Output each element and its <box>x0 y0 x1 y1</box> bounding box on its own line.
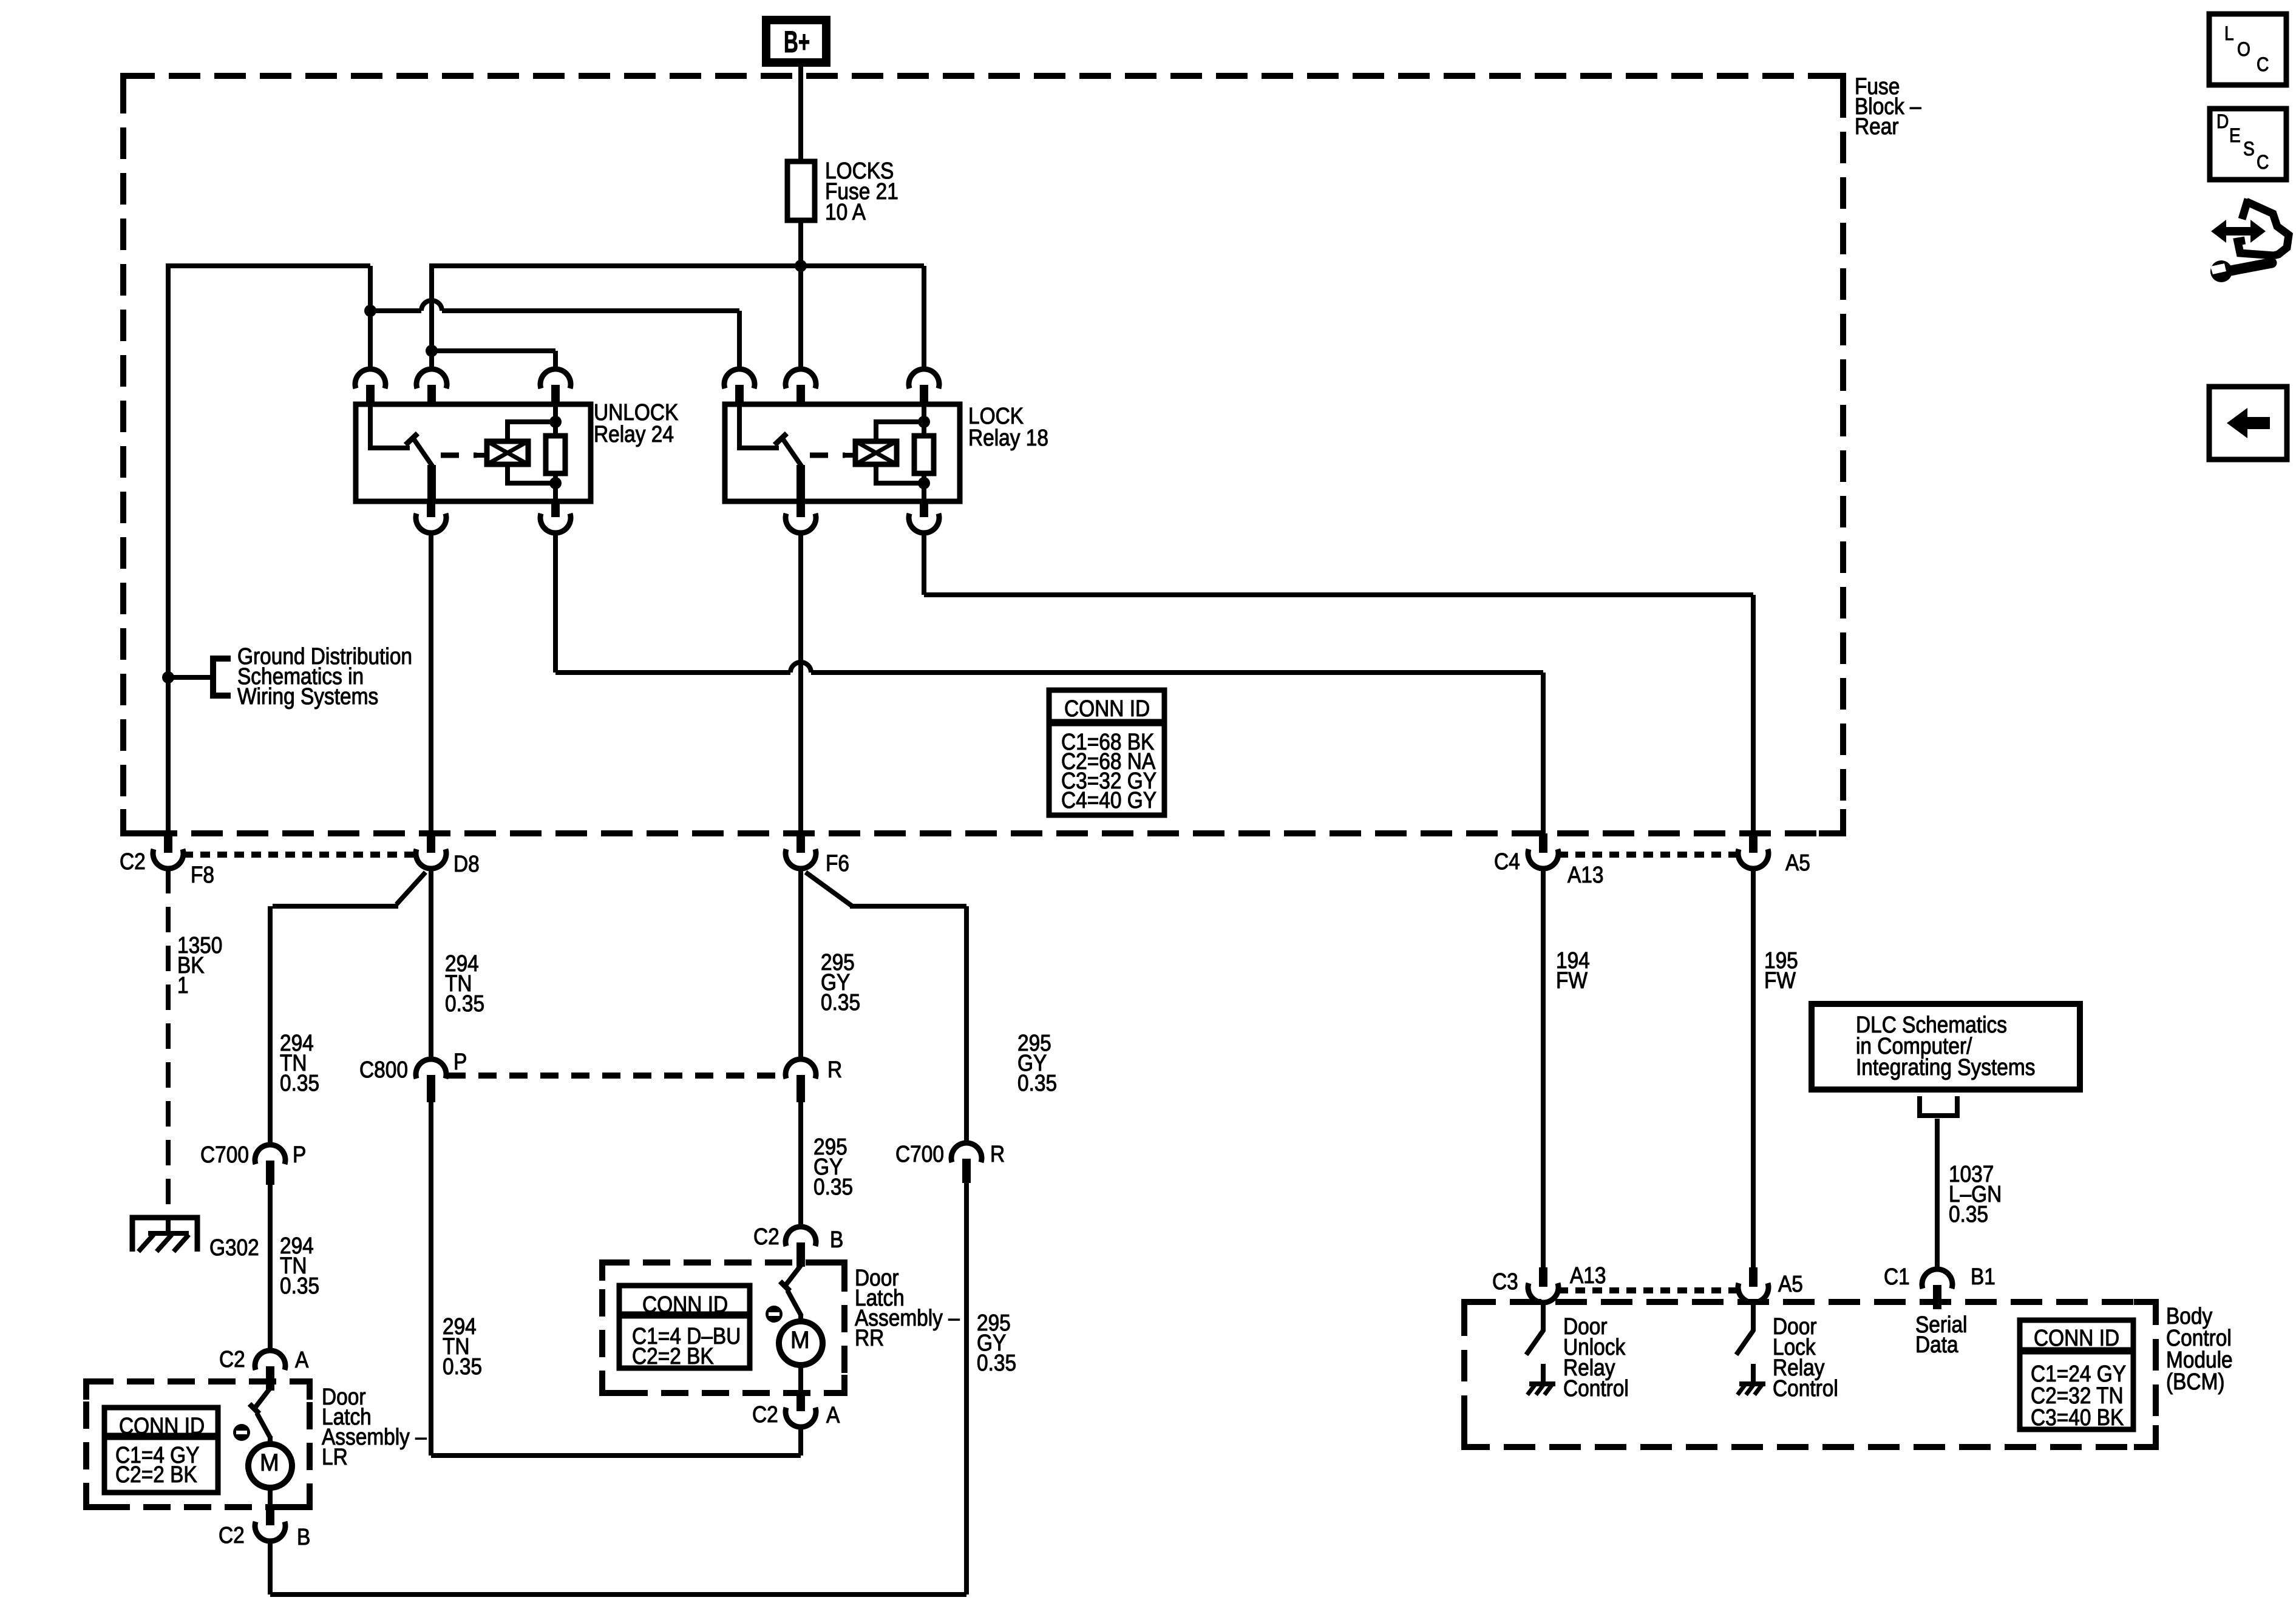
svg-text:0.35: 0.35 <box>821 989 860 1015</box>
svg-text:0.35: 0.35 <box>813 1174 853 1199</box>
svg-text:RR: RR <box>855 1325 884 1351</box>
svg-text:1: 1 <box>177 972 189 998</box>
svg-text:C: C <box>2257 54 2269 75</box>
svg-text:C2: C2 <box>120 849 146 874</box>
svg-text:0.35: 0.35 <box>280 1070 319 1096</box>
svg-text:LR: LR <box>322 1444 348 1469</box>
svg-text:C2: C2 <box>752 1401 778 1427</box>
svg-text:C1: C1 <box>1884 1264 1910 1289</box>
svg-text:C2: C2 <box>219 1522 245 1548</box>
svg-text:R: R <box>827 1057 842 1082</box>
svg-text:0.35: 0.35 <box>1017 1070 1057 1096</box>
svg-text:A5: A5 <box>1778 1271 1803 1296</box>
svg-text:C3: C3 <box>1492 1269 1518 1294</box>
svg-text:CONN ID: CONN ID <box>119 1413 205 1439</box>
svg-text:Relay 24: Relay 24 <box>594 421 674 447</box>
svg-text:A13: A13 <box>1567 862 1603 887</box>
svg-text:P: P <box>293 1142 306 1167</box>
svg-text:L: L <box>2224 23 2234 44</box>
svg-text:O: O <box>2237 39 2250 60</box>
svg-text:C2=2 BK: C2=2 BK <box>115 1462 197 1487</box>
svg-text:0.35: 0.35 <box>445 991 484 1016</box>
svg-text:C4: C4 <box>1494 849 1520 874</box>
svg-text:Control: Control <box>1563 1375 1629 1401</box>
svg-text:10 A: 10 A <box>825 199 866 225</box>
svg-text:B: B <box>830 1227 843 1252</box>
svg-text:E: E <box>2229 125 2241 146</box>
svg-text:F6: F6 <box>826 850 849 876</box>
svg-text:C2: C2 <box>219 1346 245 1372</box>
svg-text:C800: C800 <box>359 1057 408 1082</box>
svg-text:C700: C700 <box>895 1141 944 1167</box>
svg-text:0.35: 0.35 <box>280 1273 319 1298</box>
svg-text:B: B <box>297 1524 310 1550</box>
svg-text:CONN ID: CONN ID <box>642 1292 728 1317</box>
svg-text:Integrating Systems: Integrating Systems <box>1856 1054 2035 1080</box>
svg-text:F8: F8 <box>191 862 214 887</box>
svg-text:0.35: 0.35 <box>977 1350 1016 1375</box>
svg-text:0.35: 0.35 <box>443 1354 482 1379</box>
svg-text:D8: D8 <box>453 851 480 876</box>
svg-text:C2=2 BK: C2=2 BK <box>632 1343 714 1369</box>
svg-text:D: D <box>2216 111 2229 132</box>
svg-text:Data: Data <box>1915 1332 1958 1357</box>
svg-text:A: A <box>295 1347 308 1372</box>
svg-text:0.35: 0.35 <box>1949 1201 1988 1227</box>
svg-text:A: A <box>826 1402 840 1428</box>
svg-text:Relay 18: Relay 18 <box>968 425 1048 450</box>
svg-text:G302: G302 <box>209 1235 259 1260</box>
svg-text:B+: B+ <box>784 25 810 58</box>
svg-text:Wiring Systems: Wiring Systems <box>237 683 378 709</box>
svg-text:M: M <box>790 1327 810 1354</box>
svg-text:C2: C2 <box>753 1224 779 1249</box>
svg-text:M: M <box>260 1449 279 1476</box>
svg-text:C700: C700 <box>200 1142 249 1167</box>
svg-text:C: C <box>2257 152 2269 173</box>
svg-text:C4=40 GY: C4=40 GY <box>1061 787 1156 813</box>
svg-text:C3=40 BK: C3=40 BK <box>2031 1405 2124 1430</box>
svg-text:CONN ID: CONN ID <box>1064 696 1150 721</box>
svg-text:B1: B1 <box>1971 1264 1995 1289</box>
svg-text:FW: FW <box>1556 968 1588 993</box>
svg-text:A13: A13 <box>1570 1262 1606 1288</box>
svg-text:CONN ID: CONN ID <box>2034 1325 2119 1351</box>
svg-text:A5: A5 <box>1785 850 1810 875</box>
svg-text:P: P <box>453 1049 467 1074</box>
svg-text:Control: Control <box>1773 1375 1838 1401</box>
svg-text:S: S <box>2243 138 2255 160</box>
svg-text:FW: FW <box>1764 968 1796 993</box>
svg-text:Rear: Rear <box>1855 114 1899 139</box>
svg-text:(BCM): (BCM) <box>2166 1369 2225 1394</box>
svg-text:R: R <box>990 1141 1005 1167</box>
